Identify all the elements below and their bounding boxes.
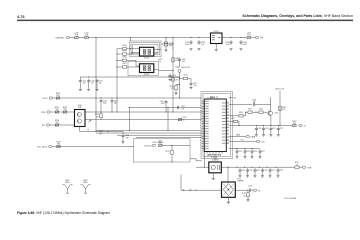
wire RX5V row to Q200 — [50, 124, 75, 126]
svg-text:TRB: TRB — [41, 112, 46, 114]
resistor R207 — [122, 66, 126, 68]
wire VCO feed vertical — [180, 175, 182, 191]
capacitor C208 collector coupling — [229, 103, 252, 105]
resistor R209 — [172, 77, 174, 81]
resistor R214 — [176, 84, 180, 86]
wire R226 jog up — [245, 112, 247, 116]
svg-text:FL200: FL200 — [144, 57, 149, 59]
transistor Q201 — [263, 111, 267, 113]
inductor L201 — [85, 36, 89, 38]
capacitor C225 — [79, 77, 81, 79]
ground R222 — [247, 200, 250, 202]
wire FL201 out — [154, 69, 159, 71]
connector H_MOD — [152, 144, 155, 146]
svg-text:C209: C209 — [258, 128, 262, 130]
capacitor C224 — [248, 189, 250, 192]
svg-text:C218: C218 — [241, 170, 245, 172]
capacitor C215 — [244, 148, 245, 149]
svg-text:JMO10048A: JMO10048A — [284, 197, 297, 200]
wire resistor bank feed vertical x117 — [116, 49, 118, 112]
wire Q200 out upper — [85, 111, 96, 113]
svg-text:VCO: VCO — [237, 178, 241, 180]
resistor R221 — [295, 166, 299, 168]
resistor R202 — [63, 111, 67, 113]
routing loop rectangle — [133, 139, 190, 162]
wire R207 to FL201 — [127, 66, 140, 68]
connector TRB out — [299, 166, 302, 168]
svg-text:.1uF: .1uF — [82, 83, 85, 85]
wire DATA row — [229, 136, 246, 138]
resistor R216 — [252, 111, 258, 113]
svg-text:R226: R226 — [239, 112, 243, 114]
wire FL200 out upper — [154, 48, 161, 50]
svg-text:680: 680 — [57, 144, 60, 146]
capacitor bank C212 — [278, 125, 279, 126]
resistor R219 — [279, 106, 281, 110]
svg-text:C222: C222 — [271, 170, 275, 172]
wire IC to Y200 — [203, 152, 205, 168]
capacitor C201 — [190, 37, 191, 38]
svg-text:.1uF: .1uF — [252, 102, 255, 104]
capacitor C213 — [236, 148, 237, 149]
shield loop outer around U200 — [201, 92, 233, 159]
capacitor C228 below LOCK line — [100, 97, 101, 98]
resistor R200 on LOCK line — [56, 97, 60, 99]
svg-text:C211: C211 — [272, 128, 276, 130]
svg-text:R216: R216 — [259, 108, 263, 110]
ground Y200 — [212, 178, 215, 180]
IC U200 left pins — [200, 100, 209, 149]
svg-text:C220: C220 — [256, 170, 260, 172]
svg-text:MOD_OUT: MOD_OUT — [276, 88, 286, 90]
capacitor C229 right of FL201 — [169, 74, 172, 79]
svg-text:R215: R215 — [248, 108, 252, 110]
filter module FL200 — [140, 47, 154, 56]
test point M201 — [81, 185, 91, 193]
svg-text:Schematic Diagrams, Overlays,: Schematic Diagrams, Overlays, and Parts … — [242, 14, 353, 18]
svg-text:C232: C232 — [181, 106, 185, 108]
IC U200 top stubs — [207, 97, 209, 99]
svg-text:16.8MHZ: 16.8MHZ — [212, 160, 219, 162]
wire R204 to FL200 — [127, 48, 140, 50]
resistor R212 to loop bottom — [171, 145, 173, 150]
svg-text:C225: C225 — [82, 81, 86, 83]
svg-text:R206: R206 — [122, 57, 126, 59]
svg-text:470: 470 — [99, 133, 102, 135]
svg-text:C227: C227 — [99, 81, 103, 83]
svg-text:C215: C215 — [246, 151, 250, 153]
IC U200 right pins — [222, 102, 229, 144]
wire vertical x280 — [279, 91, 281, 126]
capacitor C232 series on y107.5 — [177, 106, 179, 109]
resistor R213 — [180, 78, 184, 80]
svg-text:49.9: 49.9 — [175, 79, 178, 81]
capacitor bank C210 — [263, 125, 264, 126]
svg-text:Q201: Q201 — [275, 113, 279, 115]
capacitor C202 — [198, 37, 199, 38]
connector DATA — [246, 135, 249, 137]
connector 5V out — [255, 36, 258, 38]
resistor R210 — [57, 145, 61, 147]
svg-text:C223: C223 — [279, 170, 283, 172]
svg-text:R217: R217 — [231, 118, 235, 120]
svg-text:Q200: Q200 — [77, 105, 81, 107]
wire cap rail y148.5 — [229, 148, 260, 150]
svg-text:330: 330 — [293, 123, 296, 125]
svg-text:100p: 100p — [103, 103, 107, 105]
svg-text:R205: R205 — [122, 50, 126, 52]
wire mid horizontal y112 — [96, 111, 202, 113]
shield loop middle around FL200 — [131, 43, 160, 55]
svg-text:.1uF: .1uF — [181, 61, 184, 63]
wire VCO out right — [235, 189, 248, 191]
resistor R220 — [293, 124, 297, 126]
connector RX out — [253, 189, 256, 191]
svg-text:C231: C231 — [114, 101, 118, 103]
svg-text:C213: C213 — [238, 151, 242, 153]
resistor R226 — [229, 115, 239, 117]
resistor R203 — [55, 124, 59, 126]
wire TRB row to Q200 — [50, 111, 74, 113]
svg-text:SOL_MUX: SOL_MUX — [37, 147, 48, 149]
wire SOL_MUX row — [52, 146, 133, 148]
svg-text:.1uF: .1uF — [193, 85, 196, 87]
svg-text:C226: C226 — [91, 81, 95, 83]
capacitor C203 — [230, 37, 231, 38]
signal arrow at Q200 output — [88, 120, 91, 122]
capacitor C223 — [277, 168, 280, 173]
test point M200 — [63, 185, 73, 193]
resistor R211 — [159, 144, 163, 146]
wire top rail out of U201 — [222, 37, 255, 39]
svg-text:H_MOD: H_MOD — [144, 145, 152, 147]
transistor array Q200 — [75, 110, 86, 127]
svg-text:C210: C210 — [265, 128, 269, 130]
resistor R206 — [122, 59, 126, 61]
wire MOD_IN vertical — [179, 62, 181, 67]
svg-text:UNSWB+: UNSWB+ — [56, 38, 66, 40]
shield loop inner around U200 — [203, 94, 231, 157]
resistor R215 — [248, 111, 252, 113]
svg-text:C216: C216 — [253, 151, 257, 153]
wire loop to IC jog — [190, 158, 196, 160]
wire R205 to FL200 — [127, 53, 132, 55]
connector J200 UNSWB+ — [66, 36, 69, 38]
wire loop below y112 left leg — [128, 108, 130, 131]
capacitor C217 — [259, 149, 262, 154]
svg-text:C217: C217 — [261, 151, 265, 153]
capacitor C231 below LOCK line — [111, 97, 112, 98]
capacitor C221 — [261, 168, 264, 173]
svg-text:R222: R222 — [242, 193, 246, 195]
svg-text:SHLD: SHLD — [83, 182, 88, 184]
svg-text:10p: 10p — [99, 83, 102, 85]
resistor R201 — [55, 111, 59, 113]
wire long y125.5 — [229, 125, 292, 127]
svg-text:620: 620 — [57, 95, 60, 97]
resistor R205 — [122, 53, 126, 55]
crystal oscillator Y200 — [209, 162, 222, 173]
capacitor C226 — [87, 79, 90, 84]
wire mid horizontal y107.5 — [129, 107, 201, 109]
svg-text:R224: R224 — [95, 114, 99, 116]
svg-text:C221: C221 — [264, 170, 268, 172]
svg-text:680: 680 — [159, 143, 162, 145]
IC U200 bottom stubs — [207, 152, 222, 154]
connector LOCK — [49, 97, 52, 99]
voltage regulator U201 — [211, 33, 223, 44]
filter module FL201 — [140, 64, 154, 73]
capacitor bank C211 — [270, 125, 271, 126]
resistor R217 — [229, 121, 233, 123]
svg-text:C230: C230 — [125, 135, 129, 137]
svg-text:C208: C208 — [252, 100, 256, 102]
connector MOD_IN — [178, 69, 181, 72]
ground C200 — [165, 50, 168, 52]
wire Y200 out to VCO — [227, 167, 229, 182]
capacitor C205 — [165, 100, 168, 105]
shield loop outer around FL200 — [130, 41, 162, 57]
node MOD_IN label — [175, 66, 180, 68]
wire bundle b4 — [136, 136, 202, 138]
header rule — [17, 20, 353, 22]
IC U200 body — [204, 99, 226, 152]
svg-text:4-76: 4-76 — [17, 15, 25, 19]
wire R217 down to long wire — [238, 121, 239, 123]
resistor R224 below y112 — [100, 111, 101, 112]
inductor L200 — [75, 36, 79, 38]
svg-text:C212: C212 — [280, 128, 284, 130]
svg-text:.1uF: .1uF — [91, 83, 94, 85]
svg-text:5V: 5V — [260, 38, 263, 40]
svg-text:C228: C228 — [103, 101, 107, 103]
connector RX5V — [46, 124, 49, 126]
capacitor C220 — [254, 168, 257, 173]
wire bundle b1 — [96, 129, 202, 131]
resistor R225 series on y119.5 — [178, 118, 182, 120]
svg-text:12p: 12p — [158, 61, 161, 63]
capacitor C219 — [246, 168, 249, 173]
connector 5T — [299, 124, 302, 126]
svg-text:DATA: DATA — [251, 136, 256, 139]
wire FL201 to x173 — [158, 70, 173, 72]
svg-text:Figure 4-66: VHF (136-174MHz): Figure 4-66: VHF (136-174MHz) Synthesize… — [17, 211, 110, 215]
wire vertical bus x96 — [95, 38, 97, 132]
wire loop below y112 right leg — [167, 108, 169, 131]
svg-text:100: 100 — [56, 109, 59, 111]
svg-text:.1uF: .1uF — [181, 108, 184, 110]
capacitor C222 — [269, 168, 272, 173]
svg-text:TRB: TRB — [307, 167, 312, 169]
capacitor C227 — [96, 79, 99, 84]
svg-text:R207: R207 — [122, 63, 126, 65]
wire top rail into U201 — [70, 37, 211, 39]
connector TRB — [47, 111, 50, 113]
wire bundle b2 — [96, 132, 202, 134]
capacitor C206 — [178, 58, 181, 63]
svg-text:MOD_IN: MOD_IN — [182, 67, 191, 69]
capacitor C230 — [122, 132, 124, 134]
connector CLK — [256, 140, 259, 142]
wire long y167 — [221, 166, 293, 168]
wire bundle b3 — [117, 134, 202, 136]
svg-text:SHLD: SHLD — [65, 182, 70, 184]
connector SOL_MUX — [49, 145, 52, 147]
resistor R204 — [122, 48, 126, 50]
svg-text:R225: R225 — [183, 117, 187, 119]
capacitor C216 — [251, 148, 252, 149]
wire decoupling rail y77 — [80, 76, 179, 78]
resistor R222 — [247, 190, 249, 192]
shield loop around FL201 — [128, 62, 158, 76]
svg-text:120: 120 — [243, 195, 246, 197]
capacitor C204 — [240, 37, 241, 38]
wire H_MOD to loop right — [162, 144, 190, 146]
wire Q201 collector — [270, 97, 272, 111]
VCO module U202 — [222, 182, 236, 197]
svg-text:R223: R223 — [99, 131, 103, 133]
capacitor C218 — [239, 168, 242, 173]
svg-text:R213: R213 — [183, 75, 187, 77]
inductor L202 — [247, 36, 251, 38]
svg-text:FL201: FL201 — [144, 74, 149, 76]
wire U201 ground pin — [215, 44, 217, 49]
junction top rail / x96 drop — [95, 37, 96, 38]
wire loop to x173 upper — [161, 43, 173, 45]
capacitor C200 tantalum — [165, 37, 166, 38]
wire Q200 bottom to TXG — [79, 127, 81, 132]
svg-text:0: 0 — [169, 153, 170, 155]
svg-text:33p: 33p — [114, 103, 117, 105]
shield loop inner around FL200 — [133, 44, 159, 53]
wire CLK row — [229, 141, 257, 143]
capacitor C207 — [190, 82, 193, 87]
wire FL200 out lower — [154, 52, 158, 54]
node 5V arrow top right — [229, 96, 233, 98]
wire rail to FL200 loop stub — [129, 38, 131, 42]
svg-text:100: 100 — [56, 122, 59, 124]
wire vertical x173 — [172, 38, 174, 113]
wire into VCO left — [181, 189, 222, 191]
ground U201 — [215, 50, 218, 52]
svg-text:BUFFER: BUFFER — [237, 181, 244, 183]
wire R206 to FL201 — [127, 59, 136, 61]
svg-text:R204: R204 — [122, 45, 126, 47]
svg-text:C224: C224 — [248, 186, 252, 188]
svg-text:39p: 39p — [161, 103, 164, 105]
svg-text:.1uF: .1uF — [125, 137, 128, 139]
resistor R208 — [172, 58, 174, 62]
wire Y200 bottom — [212, 173, 214, 178]
wire LOCK to U200 — [53, 97, 202, 99]
svg-text:C219: C219 — [249, 170, 253, 172]
capacitor bank C209 — [256, 125, 257, 126]
wire Q201 emitter down — [270, 116, 272, 126]
svg-text:100: 100 — [64, 109, 67, 111]
wire mid horizontal y119.5 — [96, 119, 202, 121]
wire Q200 out lower — [85, 119, 96, 121]
svg-text:LOCK: LOCK — [42, 98, 48, 100]
